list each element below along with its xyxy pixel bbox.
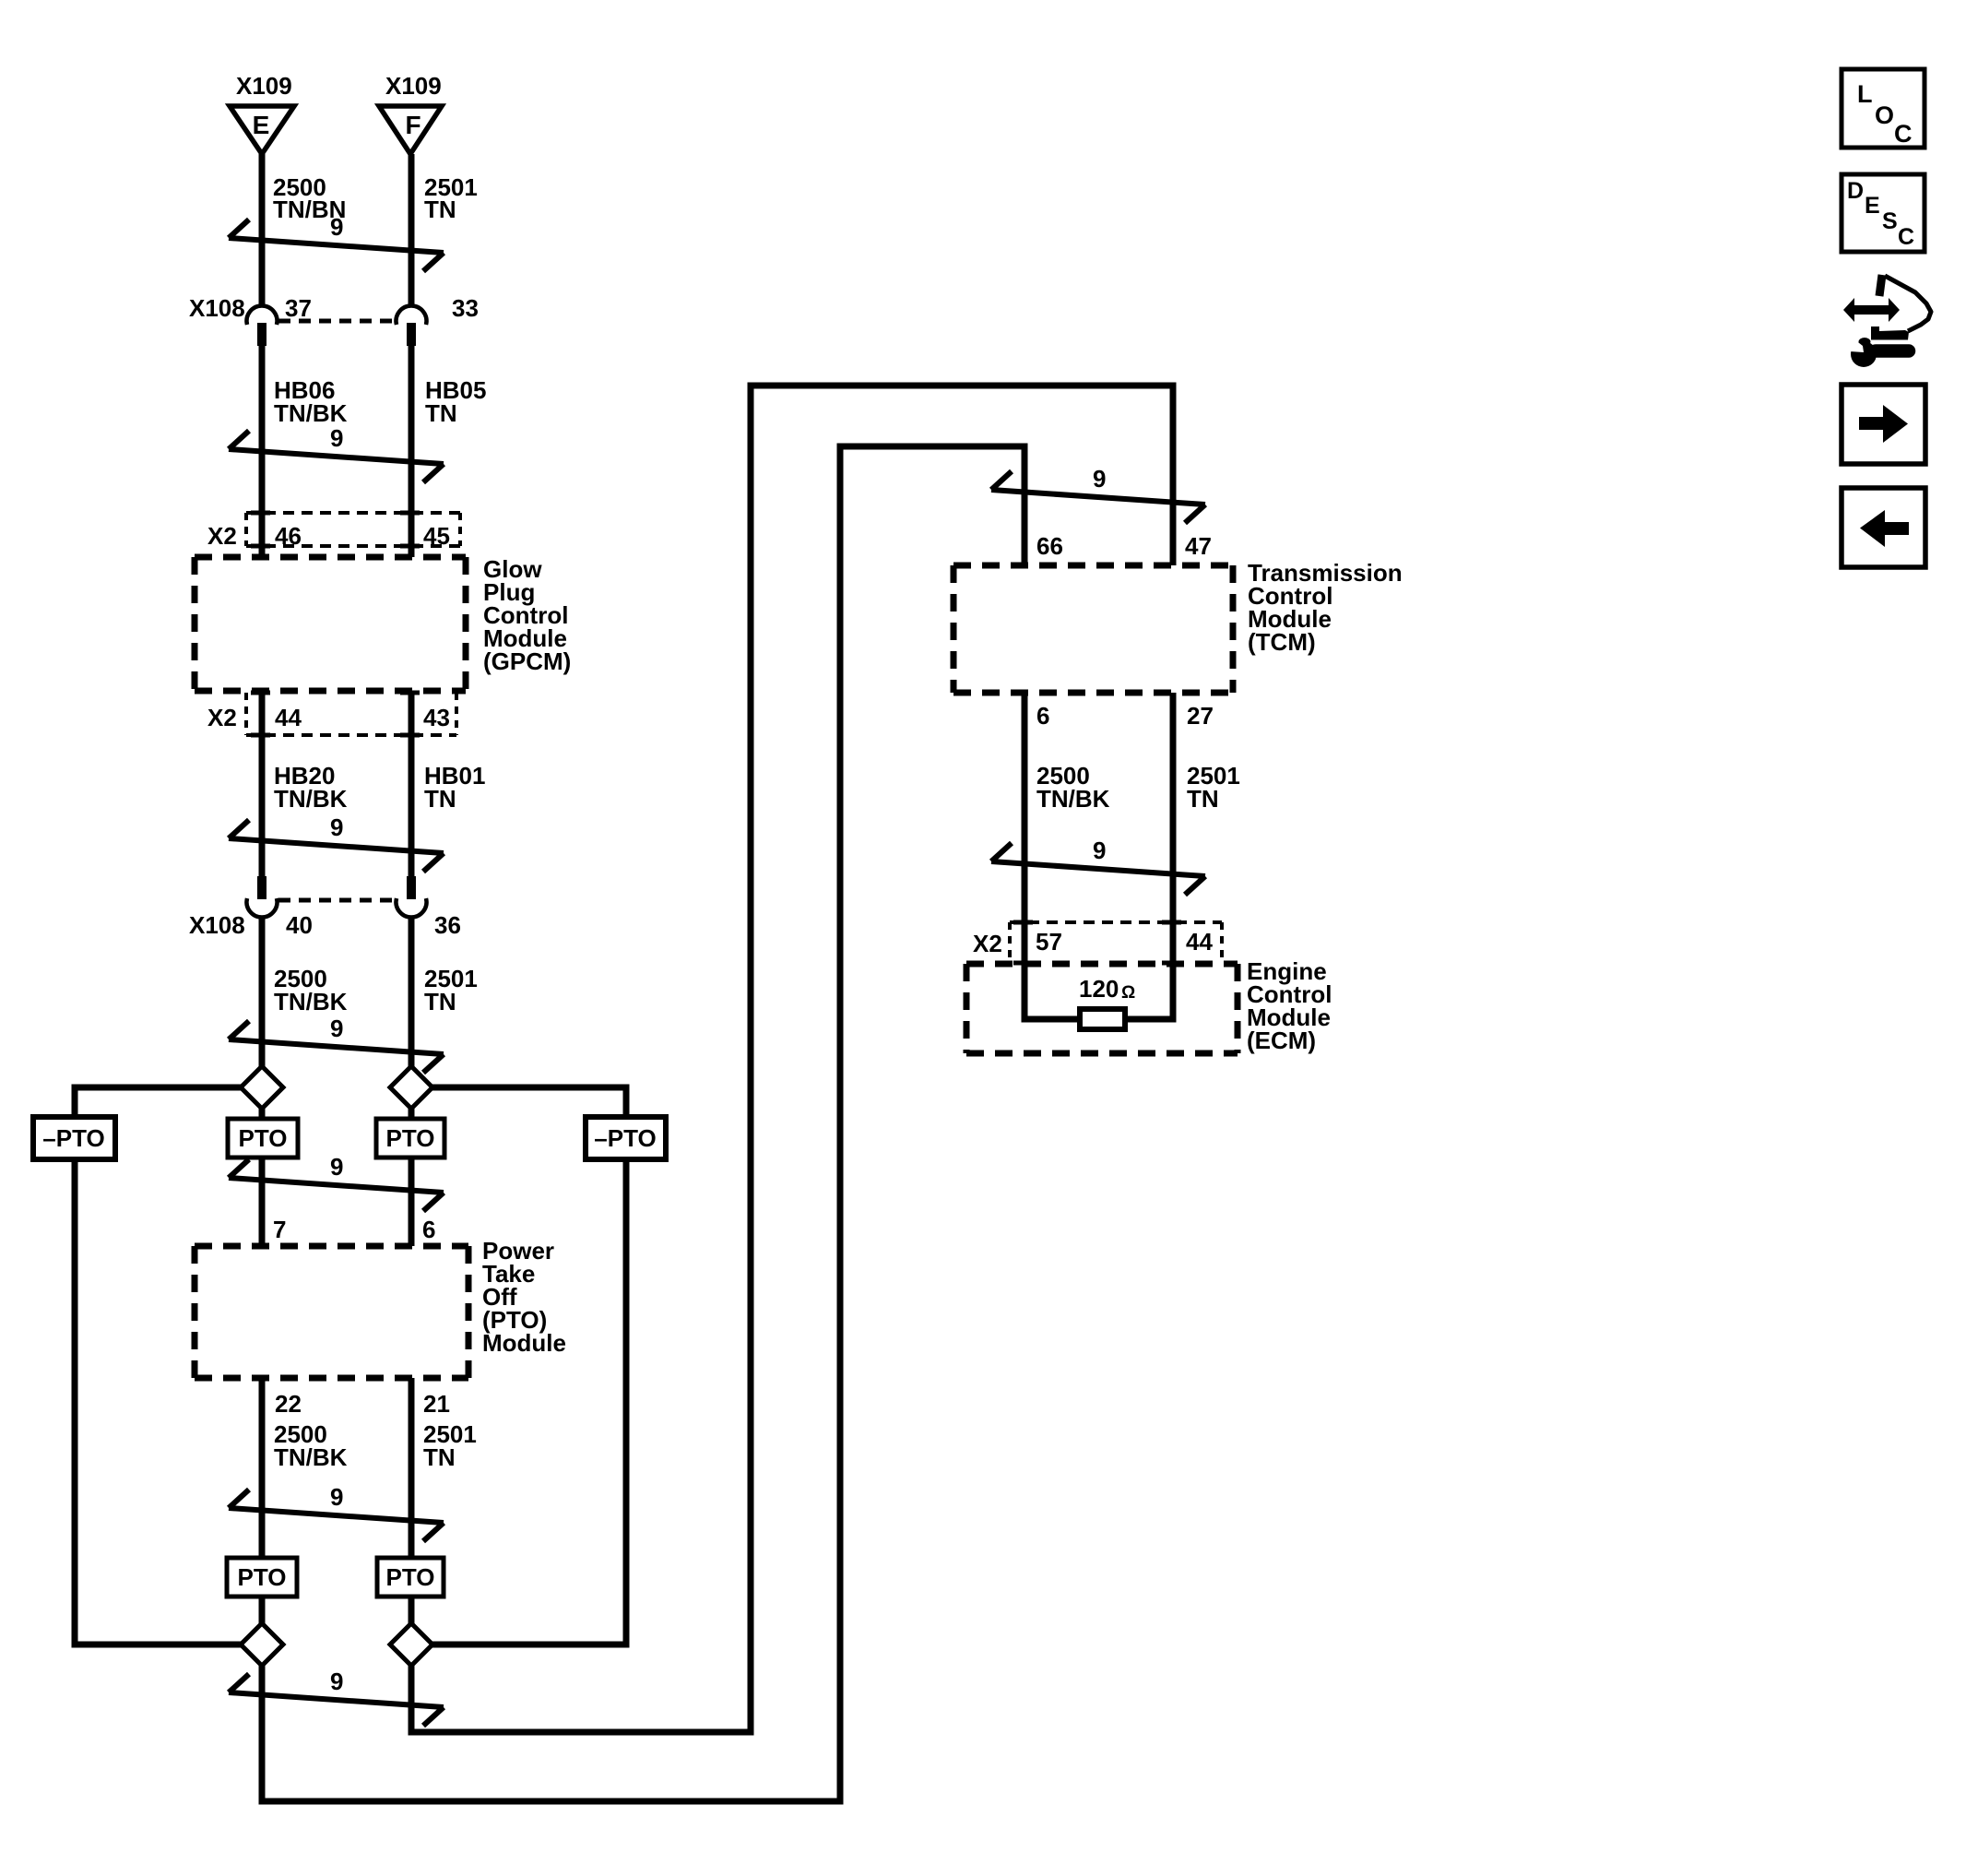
svg-text:27: 27 <box>1187 702 1214 730</box>
node PTO (right) <box>376 1119 444 1158</box>
wire splice S1 to PTO box <box>259 1109 266 1120</box>
node -PTO (right) <box>586 1117 666 1159</box>
connector X2 row pins 44/43 <box>207 693 456 735</box>
svg-text:44: 44 <box>275 704 302 731</box>
svg-text:E: E <box>1865 193 1880 219</box>
wire 2500 run to TCM pin 66 <box>262 446 1024 1801</box>
twisted pair symbol 9 (second) <box>229 424 444 482</box>
svg-text:C: C <box>1898 224 1914 250</box>
X108 connector dashed link <box>278 319 395 324</box>
svg-text:X109: X109 <box>385 72 442 100</box>
svg-text:40: 40 <box>286 911 313 939</box>
wire PTO to PTO module pin 7 <box>259 1158 266 1246</box>
svg-text:C: C <box>1894 120 1913 148</box>
twisted pair symbol 9 (TCM) <box>991 465 1205 523</box>
svg-text:PTO: PTO <box>386 1563 435 1591</box>
wire to right -PTO drop <box>432 1087 626 1117</box>
wire 2500 TN/BK TCM pin 6 to ECM pin 57 <box>1024 693 1080 1019</box>
svg-text:9: 9 <box>330 1015 343 1042</box>
twisted pair symbol 9 (ECM) <box>991 837 1205 895</box>
wire label 2500 TN/BK <box>274 965 348 1015</box>
wire splice S2 to PTO box <box>409 1109 415 1120</box>
svg-text:Module: Module <box>482 1329 566 1357</box>
svg-text:9: 9 <box>330 213 343 241</box>
svg-text:X2: X2 <box>207 704 237 731</box>
module ECM label <box>1247 957 1332 1054</box>
svg-text:TN: TN <box>425 399 457 427</box>
wire 2501 TN from X109-F to X108 pin 33 <box>409 154 415 307</box>
module TCM box <box>953 565 1233 693</box>
svg-text:X2: X2 <box>207 522 237 550</box>
icon DESC button <box>1842 174 1925 252</box>
svg-text:33: 33 <box>452 294 479 322</box>
svg-text:–PTO: –PTO <box>594 1124 656 1152</box>
svg-text:9: 9 <box>330 424 343 452</box>
svg-text:–PTO: –PTO <box>42 1124 104 1152</box>
svg-text:TN/BK: TN/BK <box>274 399 348 427</box>
module GPCM box <box>195 557 466 691</box>
svg-text:57: 57 <box>1036 928 1062 956</box>
svg-text:36: 36 <box>434 911 461 939</box>
svg-text:9: 9 <box>1093 837 1106 864</box>
wire left -PTO leg to splice S3 <box>75 1159 241 1644</box>
connector X108 pin 36 <box>397 876 461 939</box>
resistor 120 ohm label <box>1079 975 1135 1003</box>
icon back arrow button <box>1842 488 1925 567</box>
connector X109 E <box>230 72 294 154</box>
svg-text:Ω: Ω <box>1121 983 1135 1003</box>
wire label HB20 TN/BK <box>274 762 348 813</box>
svg-text:X109: X109 <box>236 72 292 100</box>
splice node S2 <box>390 1066 432 1109</box>
module TCM label <box>1248 559 1403 656</box>
svg-text:(TCM): (TCM) <box>1248 628 1316 656</box>
svg-text:9: 9 <box>330 1153 343 1181</box>
connector X109 F <box>379 72 442 154</box>
svg-text:X108: X108 <box>189 911 245 939</box>
twisted pair symbol 9 (top) <box>229 213 444 271</box>
svg-text:120: 120 <box>1079 975 1119 1003</box>
wire HB05 TN from X108-33 to GPCM 45 <box>409 345 415 557</box>
wire HB01 TN from GPCM 43 to X108 pin 36 <box>409 691 415 876</box>
connector X108 pin 40 <box>247 876 313 939</box>
twisted pair symbol 9 (sixth) <box>229 1483 444 1541</box>
svg-text:PTO: PTO <box>386 1124 435 1152</box>
svg-text:47: 47 <box>1185 532 1212 560</box>
node PTO (lower left) <box>227 1558 297 1597</box>
svg-text:TN: TN <box>423 1443 456 1471</box>
svg-text:21: 21 <box>423 1390 450 1418</box>
connector X2 row pins 57/44 (ECM) <box>973 922 1222 963</box>
svg-text:TN/BK: TN/BK <box>1036 785 1110 813</box>
svg-text:45: 45 <box>423 522 450 550</box>
svg-text:22: 22 <box>275 1390 302 1418</box>
svg-text:9: 9 <box>1093 465 1106 493</box>
wire 2501 TN TCM pin 27 to ECM pin 44 <box>1125 693 1173 1019</box>
wire label HB06 TN/BK <box>274 376 348 427</box>
svg-text:X2: X2 <box>973 930 1002 957</box>
splice node S1 <box>241 1066 283 1109</box>
svg-text:TN: TN <box>424 988 456 1015</box>
wire label 2501 TN (lower) <box>423 1420 477 1471</box>
wire 2501 TN from X108-36 to splice <box>409 916 415 1066</box>
svg-text:S: S <box>1882 208 1898 234</box>
svg-text:X108: X108 <box>189 294 245 322</box>
svg-text:9: 9 <box>330 1483 343 1511</box>
svg-text:L: L <box>1857 80 1873 108</box>
resistor 120 ohm <box>1080 1009 1125 1029</box>
wire label 2501 TN <box>424 965 478 1015</box>
icon forward arrow button <box>1842 385 1925 464</box>
svg-text:E: E <box>253 111 270 139</box>
svg-text:F: F <box>405 111 420 139</box>
svg-text:O: O <box>1875 101 1894 129</box>
svg-text:46: 46 <box>275 522 302 550</box>
svg-text:6: 6 <box>1036 702 1049 730</box>
svg-text:43: 43 <box>423 704 450 731</box>
wire 2500 TN/BK from PTO module pin 22 <box>259 1378 266 1558</box>
svg-text:PTO: PTO <box>238 1563 287 1591</box>
module PTO box <box>195 1246 468 1378</box>
twisted pair symbol 9 (fourth) <box>229 1015 444 1073</box>
module ECM box <box>966 964 1238 1053</box>
node -PTO (left) <box>33 1117 115 1159</box>
svg-text:TN/BK: TN/BK <box>274 785 348 813</box>
wire label 2501 TN (TCM) <box>1187 762 1240 813</box>
twisted pair symbol 9 (fifth) <box>229 1153 444 1211</box>
twisted pair symbol 9 (third) <box>229 813 444 872</box>
wire 2500 TN/BK from X108-40 to splice <box>259 916 266 1066</box>
splice node S4 <box>390 1623 432 1666</box>
svg-text:9: 9 <box>330 813 343 841</box>
wire to left -PTO drop <box>75 1087 241 1117</box>
wire 2500 TN/BN from X109-E to X108 pin 37 <box>259 154 266 307</box>
svg-text:9: 9 <box>330 1668 343 1695</box>
module GPCM label <box>483 555 571 675</box>
svg-text:D: D <box>1847 178 1864 204</box>
wire label 2500 TN/BN <box>273 173 346 223</box>
svg-text:TN: TN <box>1187 785 1219 813</box>
connector X108 pin 33 <box>397 294 479 346</box>
twisted pair symbol 9 (seventh) <box>229 1668 444 1726</box>
svg-text:TN/BK: TN/BK <box>274 1443 348 1471</box>
connector X2 row pins 46/45 <box>207 513 460 550</box>
wire right -PTO leg to splice S4 <box>432 1159 626 1644</box>
svg-text:PTO: PTO <box>239 1124 288 1152</box>
wire 2501 TN from PTO module pin 21 <box>409 1378 415 1558</box>
wire label HB01 TN <box>424 762 485 813</box>
svg-text:(ECM): (ECM) <box>1247 1027 1316 1054</box>
svg-text:(GPCM): (GPCM) <box>483 647 571 675</box>
icon LOC button <box>1842 69 1925 148</box>
node PTO (left) <box>228 1119 298 1158</box>
svg-text:37: 37 <box>285 294 312 322</box>
wire PTO to PTO module pin 6 <box>409 1158 415 1246</box>
svg-text:44: 44 <box>1186 928 1213 956</box>
svg-text:TN: TN <box>424 196 456 223</box>
wire label HB05 TN <box>425 376 486 427</box>
svg-text:7: 7 <box>273 1216 286 1243</box>
wire HB06 TN/BK from X108-37 to GPCM 46 <box>259 345 266 557</box>
X108 second connector dashed link <box>278 898 395 903</box>
svg-text:6: 6 <box>422 1216 435 1243</box>
wire label 2500 TN/BK (TCM) <box>1036 762 1110 813</box>
wire 2501 run to TCM pin 47 <box>411 386 1173 1732</box>
wire label 2500 TN/BK (lower) <box>274 1420 348 1471</box>
node PTO (lower right) <box>377 1558 444 1597</box>
connector X108 pin 37 <box>247 294 312 346</box>
module PTO label <box>482 1237 566 1357</box>
wire HB20 TN/BK from GPCM 44 to X108 pin 40 <box>259 691 266 876</box>
splice node S3 <box>241 1623 283 1666</box>
wire PTO to splice S4 <box>409 1597 415 1624</box>
svg-text:TN/BK: TN/BK <box>274 988 348 1015</box>
svg-text:66: 66 <box>1036 532 1063 560</box>
icon service/swap glyph <box>1843 275 1931 367</box>
svg-text:TN: TN <box>424 785 456 813</box>
wire PTO to splice S3 <box>259 1597 266 1624</box>
wire label 2501 TN <box>424 173 478 223</box>
